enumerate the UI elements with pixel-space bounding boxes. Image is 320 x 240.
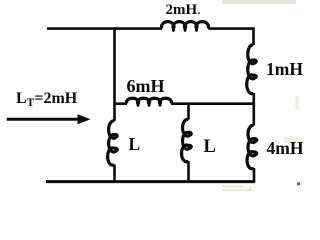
wire right vertical upper [252,27,255,45]
wire middle horizontal right segment [171,102,254,105]
wire bottom horizontal [46,180,255,183]
dark dot right edge [297,183,300,186]
arrow for LT [7,118,79,121]
inductor 4mH coil [247,125,257,168]
label L1 [129,134,141,155]
label 1mH [266,59,303,80]
wire right vertical between 1mH and middle [253,93,256,126]
inductor 6mH coil [126,98,171,103]
bottom-right beige artifact [222,186,251,191]
inductor L2 coil [182,119,192,161]
label LT=2mH [16,90,77,109]
wire second vertical upper [187,104,190,120]
right-edge beige artifact [296,96,299,109]
label 6mH [127,76,165,97]
wire top horizontal right segment [208,27,254,30]
wire right vertical lower [253,168,256,182]
label 2mH [166,2,201,19]
wire top horizontal left segment [47,27,162,30]
top-right beige band artifact [222,0,296,4]
inductor 2mH coil [162,22,209,29]
wire left inner vertical lower [113,165,116,183]
label L2 [204,137,216,158]
inductor L1 coil [108,121,117,165]
inductor 1mH coil [247,45,256,94]
wire left inner vertical upper [113,27,116,121]
label 4mH [267,138,304,159]
wire middle horizontal left segment [115,102,128,105]
beige artifact near 4mH [284,137,300,144]
wire second vertical lower [187,161,190,183]
